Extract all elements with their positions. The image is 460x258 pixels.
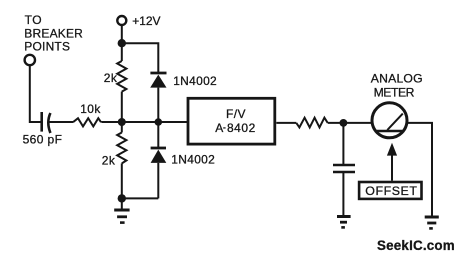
svg-text:F/V: F/V xyxy=(226,107,246,121)
svg-text:A 8402: A 8402 xyxy=(215,121,256,135)
ground G1 xyxy=(114,198,129,222)
svg-text:2k: 2k xyxy=(104,71,118,85)
node junction ground xyxy=(118,194,126,202)
op-amp block U1 F/V A 8402 xyxy=(188,98,275,144)
capacitor C1 560pF xyxy=(42,112,51,133)
+12V terminal xyxy=(117,16,126,25)
wire junction C down to capacitor C2 xyxy=(342,123,344,165)
wire D2 bottom to ground junction xyxy=(122,197,159,199)
svg-text:10k: 10k xyxy=(80,102,101,116)
svg-text:POINTS: POINTS xyxy=(24,40,70,54)
node junction +12V rail xyxy=(118,39,126,47)
analog meter M1 xyxy=(372,103,407,138)
wire +12V rail to diode D1 top xyxy=(122,43,159,73)
svg-text:1N4002: 1N4002 xyxy=(173,74,217,88)
wire capacitor to resistor 10k xyxy=(49,121,73,123)
svg-text:+12V: +12V xyxy=(132,14,160,28)
node junction A (10k / 2k / diodes rail) xyxy=(118,118,126,126)
wire input down and right to capacitor xyxy=(30,65,41,122)
wire main rail to F/V box xyxy=(101,121,187,123)
svg-text:METER: METER xyxy=(374,86,415,100)
svg-text:BREAKER: BREAKER xyxy=(24,26,83,40)
wire R4 to meter xyxy=(328,122,372,124)
svg-text:TO: TO xyxy=(25,13,43,27)
wire R2 bottom to rail xyxy=(121,92,123,122)
wire capacitor C2 to ground G2 xyxy=(342,172,344,216)
wire +12V down to 2k resistor xyxy=(121,25,123,61)
diode D1 1N4002 (upper) xyxy=(150,73,166,122)
resistor R2 2k (upper) xyxy=(117,61,126,92)
svg-text:1N4002: 1N4002 xyxy=(171,153,215,167)
svg-text:ANALOG: ANALOG xyxy=(371,72,423,86)
ground G3 xyxy=(425,217,439,228)
label ANALOG METER xyxy=(371,72,423,100)
node junction C (filter cap tap) xyxy=(340,119,348,127)
input terminal (to breaker points) xyxy=(25,55,35,65)
wire F/V output to resistor R4 xyxy=(276,122,296,124)
diode D2 1N4002 (lower) xyxy=(151,122,167,198)
label TO BREAKER POINTS xyxy=(24,13,83,54)
resistor R4 (output) xyxy=(296,118,327,128)
svg-text:SeekIC.com: SeekIC.com xyxy=(377,238,455,253)
resistor R3 2k (lower) xyxy=(117,122,126,198)
svg-text:OFFSET: OFFSET xyxy=(365,184,417,198)
svg-text:560 pF: 560 pF xyxy=(23,132,63,146)
capacitor C2 (filter) xyxy=(333,165,355,172)
offset box xyxy=(359,182,421,199)
wire meter right side down to ground G3 xyxy=(407,123,432,217)
svg-text:2k: 2k xyxy=(102,153,116,167)
offset adjust arrow xyxy=(387,143,397,181)
node junction B (diode branch on rail) xyxy=(155,118,163,126)
resistor R1 10k xyxy=(73,118,101,126)
ground G2 xyxy=(337,217,351,228)
